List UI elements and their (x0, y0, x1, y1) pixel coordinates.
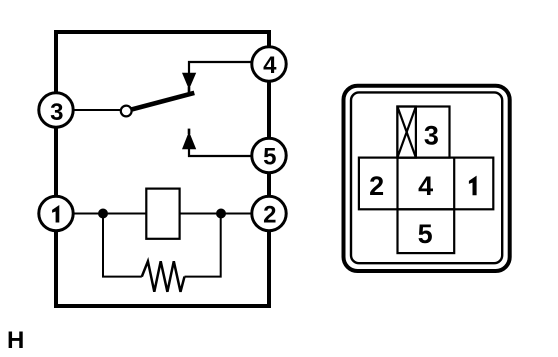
svg-text:H: H (7, 327, 24, 354)
svg-text:5: 5 (418, 219, 433, 249)
junction dot left (98, 209, 108, 219)
cavity 1 label (469, 176, 477, 196)
svg-text:3: 3 (50, 99, 63, 126)
divider cavity 4 / 1 (453, 158, 455, 210)
cavity 3 box (397, 107, 449, 158)
resistor zigzag (142, 261, 185, 292)
svg-text:4: 4 (418, 171, 433, 201)
divider cavity 2 / 4 (396, 158, 398, 210)
svg-text:2: 2 (369, 171, 384, 201)
wire terminal 1 to terminal 2 through coil (58, 213, 252, 215)
svg-text:2: 2 (263, 202, 276, 229)
terminal 3 (39, 93, 73, 127)
keying slot X mark (397, 107, 416, 158)
terminal 5 (252, 138, 286, 172)
switch pivot circle (121, 106, 132, 117)
switch arm (movable contact) (131, 93, 194, 110)
terminal 2 (252, 196, 286, 230)
wire from terminal 5 to fixed contact (189, 148, 252, 156)
svg-text:4: 4 (263, 52, 277, 79)
junction dot right (216, 209, 226, 219)
resistor loop wire (103, 214, 142, 277)
svg-text:3: 3 (424, 120, 439, 150)
svg-text:5: 5 (263, 144, 276, 171)
resistor loop wire right (185, 214, 221, 277)
keying slot box (crossed out) (397, 107, 416, 158)
connector housing outer border (344, 86, 510, 271)
terminal 1 (39, 196, 73, 230)
fixed contact arrow (normally-closed, from pin 4) (182, 73, 196, 90)
terminal 4 (252, 47, 286, 81)
middle cavity row box (359, 158, 493, 210)
cavity 5 box (398, 209, 455, 253)
relay coil (146, 189, 179, 239)
fixed contact arrow (from pin 5) (182, 132, 196, 150)
wire from terminal 4 to fixed contact (189, 62, 252, 74)
relay case outline wire (56, 32, 269, 306)
wire from terminal 3 to switch pivot (58, 109, 121, 111)
connector housing inner border (351, 92, 502, 263)
